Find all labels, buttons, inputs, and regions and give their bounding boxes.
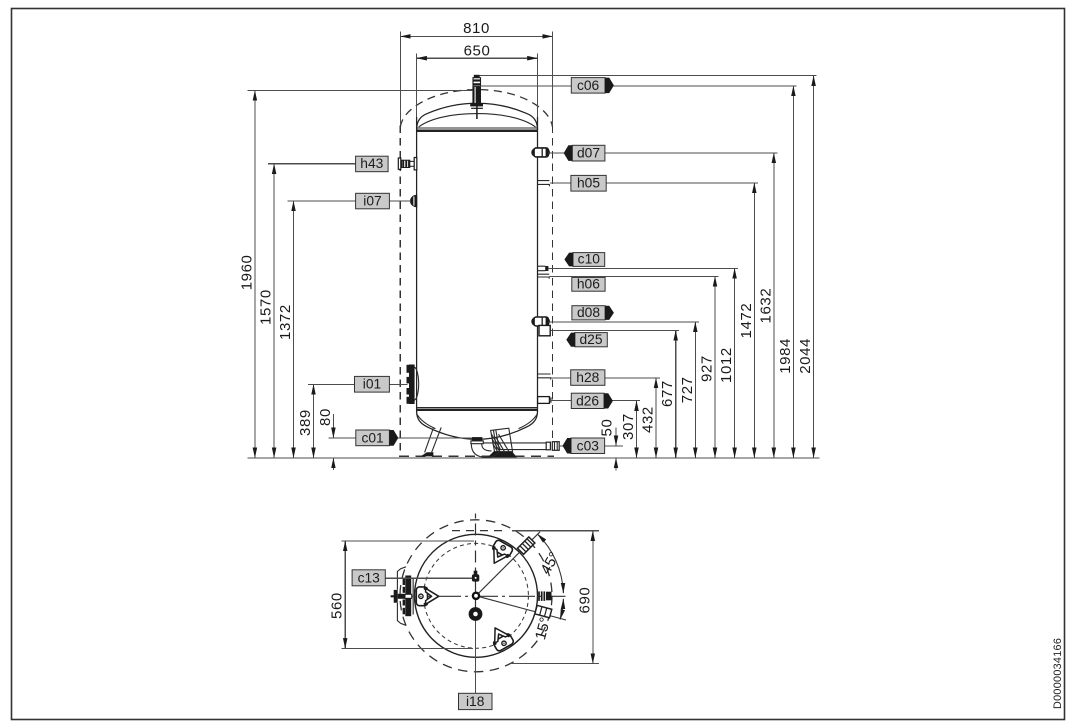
c06 level line to 2044 [480,75,817,77]
leg (plan) bottom-right [487,623,515,652]
svg-text:1570: 1570 [258,289,275,325]
center fitting [473,593,479,599]
svg-text:927: 927 [699,355,716,382]
label c01 [328,430,471,446]
tank circle [415,534,538,657]
label h28 [551,370,660,386]
dim 810 [400,35,552,37]
svg-text:h05: h05 [577,176,600,191]
label c06 [571,78,614,94]
tank top dome [417,103,538,130]
svg-text:d25: d25 [579,332,602,347]
svg-text:1372: 1372 [277,304,294,340]
svg-text:1984: 1984 [777,338,794,374]
svg-text:307: 307 [620,413,637,440]
fitting c06 on top [470,75,483,119]
tank top dome inner seam [419,114,536,127]
dim 50 [615,428,617,446]
dim 1472 [753,183,755,458]
svg-text:c01: c01 [361,430,383,445]
sensor bracket h28 [538,374,551,380]
fitting d08 [531,317,550,326]
insulation dashed dome [400,90,552,127]
angle arc 15 [560,599,563,620]
dim 650 extension lines [416,54,418,119]
svg-text:c03: c03 [577,438,600,453]
dim 1984 [792,86,794,458]
leg (plan) left [416,586,438,606]
label i01 [308,376,408,392]
svg-text:727: 727 [679,376,696,403]
dim 690 [592,531,594,664]
dim 1960 extension line (insulation top) [248,89,474,91]
svg-text:389: 389 [297,409,314,436]
svg-text:560: 560 [329,592,346,619]
svg-text:h06: h06 [577,277,600,292]
fitting d07 on right wall [531,148,550,157]
dim 650 [417,57,538,59]
svg-text:810: 810 [463,20,490,37]
svg-text:d07: d07 [577,146,600,161]
fitting c13 (plan) [472,571,479,582]
svg-text:1632: 1632 [757,288,774,324]
svg-text:677: 677 [659,380,676,407]
svg-text:i07: i07 [363,193,381,208]
15 degree line [476,596,566,620]
fitting d26 [538,397,551,404]
label d25 [550,330,679,347]
sensor bracket h05 [538,181,550,187]
label c03 [559,438,623,454]
insulation dashed left [399,126,401,457]
label c13 [352,570,472,586]
dim 727 [694,322,696,458]
svg-text:i01: i01 [363,377,381,392]
svg-text:50: 50 [599,419,616,437]
bottom dome inner seam right [519,414,538,429]
bolt circle 560 (fine dashed) [424,543,529,648]
dim 307 [636,401,638,458]
label d07 [548,145,777,161]
label h06 [549,276,718,291]
svg-text:c06: c06 [577,78,600,93]
bottom dome inner seam left [417,414,436,429]
label c10 [548,252,738,269]
label h43 [268,156,388,172]
dim 560 extension lines [342,540,475,542]
dim 432 [655,378,657,458]
svg-text:650: 650 [464,42,491,59]
dim 1372 [293,201,295,458]
c06 level line 2 to 1984 [481,85,572,87]
insulation dashed bottom [399,455,554,457]
insulation circle 810 (dashed) [400,520,552,672]
svg-text:d26: d26 [576,393,599,408]
fitting on 15 line (threaded) [535,605,552,617]
flange i01 on left wall [407,365,419,405]
label d08 [549,305,699,322]
tank shell walls [416,117,418,412]
svg-text:c10: c10 [578,252,601,267]
dim 1570 [273,164,275,458]
dim 677 [675,330,677,458]
ground baseline [248,457,820,459]
svg-text:1012: 1012 [718,347,735,383]
fitting i07 on left wall [411,195,417,206]
left leg [421,427,442,456]
drain i18 (black donut) [469,607,483,621]
svg-text:c13: c13 [358,570,381,585]
dim 810 extension lines [399,32,401,126]
dim 80 [332,414,334,438]
45 degree line [476,532,540,596]
leg (plan) top-right [486,539,514,568]
45deg port (hatched) [518,537,535,554]
fitting on 0 line (bolt) [539,591,552,601]
dim 2044 [813,76,815,458]
front leg (hatched) [488,428,517,457]
insulation dashed right [552,126,554,457]
dim 1632 [773,153,775,458]
dim 560 [344,541,346,649]
flange i01 (plan) with T-bolt [391,567,414,626]
horizontal centerline [391,595,566,597]
dim 389 [313,384,315,458]
tank bottom dome [417,411,538,439]
dim 1960 [254,90,256,458]
svg-text:i18: i18 [466,694,485,709]
dim 927 [714,276,716,458]
fitting d25 (square) [539,325,550,335]
label d26 [550,393,641,408]
fitting c10 [538,266,549,271]
fitting h43 on left wall [398,158,417,170]
svg-text:D0000034166: D0000034166 [1052,638,1064,709]
drain elbow and pipe (c01/c03) [471,437,559,457]
top weld seam lines [417,127,538,129]
dim 690 extension lines [452,530,505,532]
svg-text:h43: h43 [360,156,383,171]
svg-text:1960: 1960 [238,255,255,291]
vertical centerline [475,514,477,571]
label i18 [459,621,493,710]
svg-text:2044: 2044 [797,338,814,374]
svg-text:1472: 1472 [738,303,755,339]
svg-text:80: 80 [317,408,334,426]
dim 1012 [734,268,736,458]
svg-text:h28: h28 [576,370,599,385]
svg-text:432: 432 [640,406,657,433]
svg-text:d08: d08 [577,305,600,320]
sensor bracket h06 [538,274,550,279]
label i07 [288,193,411,209]
angle arc 45 [537,534,563,593]
svg-text:690: 690 [576,587,593,614]
label h05 [550,175,758,191]
bottom weld seam lines [417,407,538,409]
